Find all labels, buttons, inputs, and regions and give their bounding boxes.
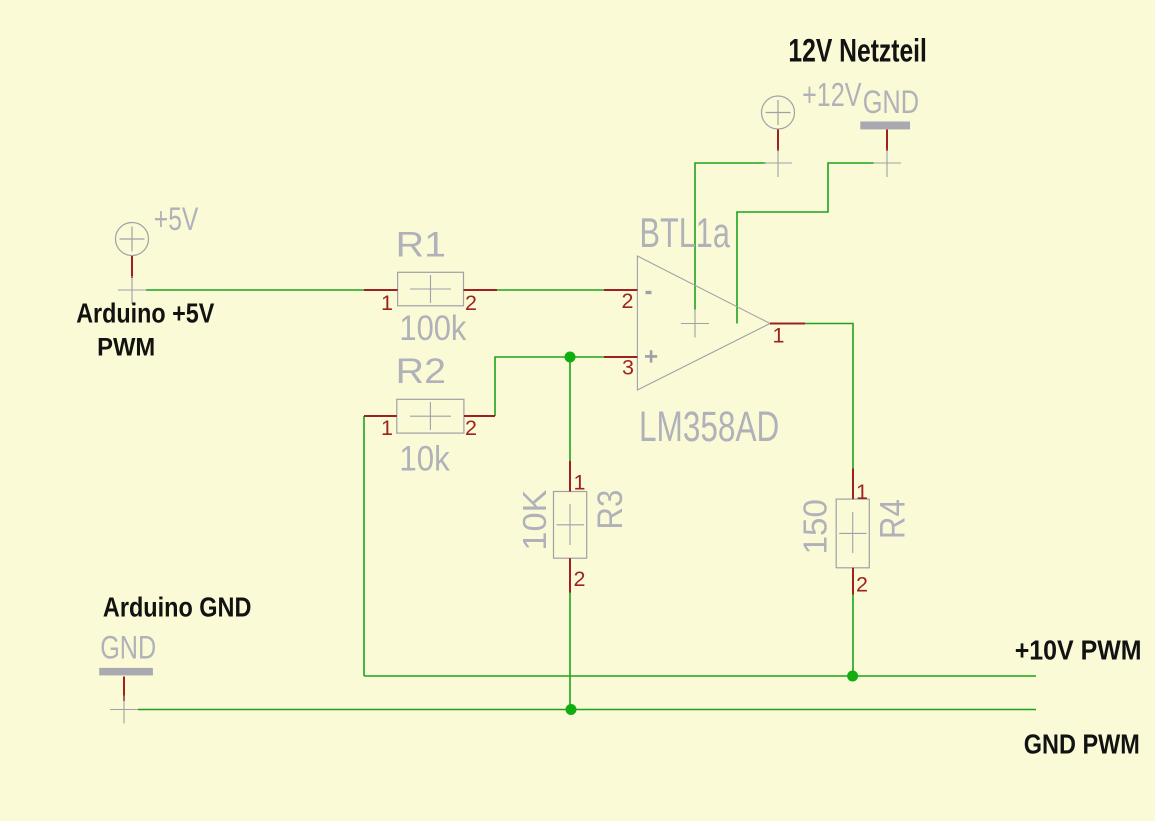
pin stub opamp pin2 [604,289,637,291]
svg-text:100k: 100k [399,309,466,348]
pin cross ground bottom [110,696,138,724]
wire noninverting input net [495,357,604,416]
svg-text:GND PWM: GND PWM [1024,728,1140,759]
svg-text:2: 2 [856,573,868,597]
pin stub ground top [886,130,888,152]
wire output net (opamp pin1 to R4) [805,324,853,469]
supply +5V P1 [116,223,149,256]
wire R2 pin1 down [363,416,365,676]
junction node R3 / GND bus [566,704,577,715]
pin stub +5V [131,256,133,278]
resistor R1 [364,272,497,306]
svg-text:GND: GND [863,83,919,120]
svg-text:2: 2 [574,567,586,591]
svg-text:BTL1a: BTL1a [640,209,731,256]
svg-text:2: 2 [465,416,477,440]
svg-text:R2: R2 [396,352,446,391]
pin stub ground bottom [123,677,125,702]
pin stub opamp pin1 output [770,323,805,325]
svg-text:12V Netzteil: 12V Netzteil [788,32,927,69]
svg-text:1: 1 [381,416,393,440]
resistor R2 [364,399,495,433]
svg-text:150: 150 [797,499,834,554]
svg-text:Arduino +5V: Arduino +5V [76,297,214,328]
wire GND PWM bus [138,709,1036,711]
svg-text:10k: 10k [399,439,450,478]
svg-text:2: 2 [465,291,477,315]
svg-text:+5V: +5V [154,201,199,237]
op-amp plus symbol [645,350,657,362]
wire R3 pin2 down to GND bus [569,593,571,710]
svg-text:R4: R4 [874,499,913,539]
svg-text:1: 1 [773,323,785,347]
ground symbol top (SUPPLY GND) [860,122,910,130]
svg-text:GND: GND [100,629,156,666]
op-amp minus symbol [646,291,652,294]
svg-text:10K: 10K [516,490,553,551]
svg-text:1: 1 [381,291,393,315]
wire net N$1 (+5V to R1 pin1) [146,289,364,291]
svg-text:R1: R1 [396,225,446,264]
svg-text:LM358AD: LM358AD [639,404,779,451]
junction node R4 / +10V bus [847,671,858,682]
junction node at opamp + input [565,352,576,363]
svg-text:Arduino GND: Arduino GND [103,592,252,623]
pin stub +12V [777,130,779,152]
pin stub opamp pin3 [604,356,637,358]
wire +12V net [695,163,766,310]
pin cross +12V [764,150,792,178]
wire R4 pin2 to +10V bus [852,595,854,677]
svg-text:+12V: +12V [802,77,862,114]
wire +10V PWM bus [364,675,1036,677]
svg-text:R3: R3 [591,490,630,530]
svg-text:+10V PWM: +10V PWM [1015,634,1142,665]
pin cross ground top [873,150,901,178]
resistor R4 [836,469,869,595]
wire net N$2 (R1 pin2 to opamp pin2) [497,289,604,291]
svg-text:3: 3 [622,356,634,380]
svg-text:1: 1 [856,480,868,504]
op-amp U1 triangle [637,256,770,390]
resistor R3 [554,461,587,593]
svg-text:PWM: PWM [97,334,155,362]
supply +12V P2 [762,96,795,129]
wire GND net top [737,163,874,324]
svg-text:2: 2 [622,289,634,313]
pin cross +5V [118,276,146,304]
op-amp power pin cross [681,310,709,338]
svg-text:1: 1 [574,471,586,495]
ground symbol bottom (Arduino GND) [99,668,153,676]
wire R3 pin1 up to junction [569,357,571,461]
